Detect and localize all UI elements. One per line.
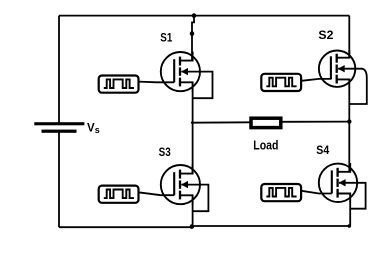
pulse generator box for S1 gate xyxy=(99,76,139,93)
wire mid rail right of load xyxy=(282,121,350,123)
S2 channel dashes xyxy=(336,54,338,63)
S4 channel dashes xyxy=(336,168,338,177)
wire mid rail left of load xyxy=(191,121,251,123)
S4 source internal lead xyxy=(338,194,351,203)
svg-text:S4: S4 xyxy=(316,143,329,157)
wire S3 source down to bottom rail xyxy=(192,204,194,227)
wire bottom rail right segment xyxy=(192,225,351,227)
S4 gate plate xyxy=(331,170,333,193)
wire S3 drain up to mid rail xyxy=(192,123,194,174)
junction dot on top rail at S1 drain xyxy=(192,13,197,18)
svg-text:Load: Load xyxy=(253,137,278,152)
pulse generator box for S4 gate xyxy=(261,184,301,201)
svg-text:S2: S2 xyxy=(318,28,333,42)
pulse waveform for S2 gate xyxy=(266,78,296,87)
pulse waveform for S3 gate xyxy=(104,190,134,199)
S4 body-source loop xyxy=(339,183,366,209)
wire S4 drain up to mid-right node xyxy=(348,122,350,172)
pulse waveform for S1 gate xyxy=(104,79,134,88)
S2 body-source loop (curved corner) xyxy=(338,69,367,104)
transistor S2 body circle xyxy=(319,50,355,86)
S4 gate lead from pulse box xyxy=(301,191,331,194)
S2 gate lead from pulse box xyxy=(301,79,331,81)
svg-text:S3: S3 xyxy=(159,145,171,159)
junction dot S3 source on bottom rail xyxy=(190,224,195,229)
S3 gate lead from pulse box xyxy=(138,192,174,195)
svg-text:s: s xyxy=(95,125,100,135)
wire bottom rail left segment xyxy=(59,226,192,228)
pulse generator box for S2 gate xyxy=(261,74,301,91)
S1 body arrow xyxy=(181,68,188,75)
S3 drain internal lead xyxy=(180,165,193,174)
S2 drain internal lead xyxy=(337,50,350,58)
transistor S3 body circle xyxy=(161,165,200,204)
S3 body arrow xyxy=(181,181,188,188)
S2 gate plate xyxy=(330,56,332,79)
wire S1 drain to top rail (with jog) xyxy=(192,16,194,34)
S3 source internal lead xyxy=(180,195,193,204)
S1 body-source loop xyxy=(181,72,212,99)
S1 channel dashes xyxy=(179,57,181,66)
wire S2 drain from top rail corner xyxy=(348,16,350,59)
svg-text:S1: S1 xyxy=(160,31,172,45)
junction dot mid-right node xyxy=(347,119,351,123)
S3 gate plate xyxy=(173,172,175,195)
battery Vs positive plate xyxy=(34,122,84,125)
wire left vertical from battery - terminal to bottom rail xyxy=(58,131,60,227)
junction dot on S1 drain wire xyxy=(190,31,195,36)
wire S1 source down to mid rail xyxy=(192,91,194,123)
S2 body arrow xyxy=(338,65,345,72)
wire top rail xyxy=(59,15,349,17)
wire left vertical from top rail to battery + terminal xyxy=(58,16,60,123)
S2 source internal lead xyxy=(337,79,350,87)
battery Vs negative plate xyxy=(42,130,77,133)
pulse generator box for S3 gate xyxy=(99,186,139,203)
S3 body-source loop xyxy=(181,185,208,212)
pulse waveform for S4 gate xyxy=(266,188,296,197)
transistor S4 body circle xyxy=(319,164,357,202)
transistor S1 body circle xyxy=(161,52,200,91)
load resistor rectangle xyxy=(251,118,281,127)
wire S2 source down to mid-right node xyxy=(348,87,350,122)
S1 gate plate xyxy=(173,59,175,82)
S1 source internal lead xyxy=(180,82,193,91)
S3 channel dashes xyxy=(179,170,181,179)
S4 drain internal lead xyxy=(338,163,351,172)
small dot at bottom-right corner junction xyxy=(348,224,352,228)
S1 gate lead from pulse box xyxy=(138,81,174,84)
S4 body arrow xyxy=(339,179,346,186)
S1 drain internal lead xyxy=(180,52,193,61)
wire S4 source down to bottom rail corner xyxy=(349,202,351,226)
